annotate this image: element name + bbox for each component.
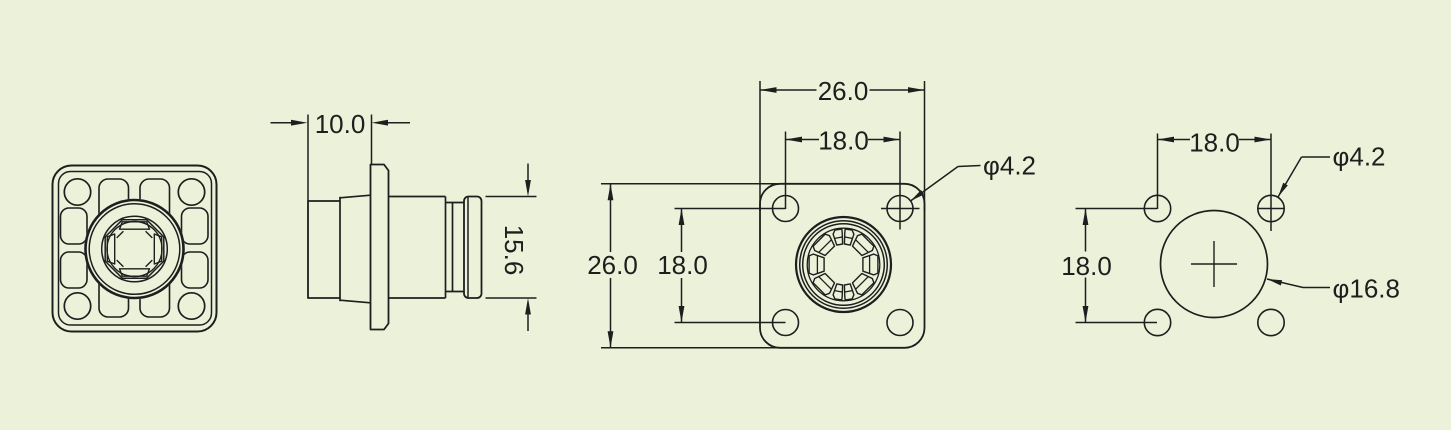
svg-text:26.0: 26.0 bbox=[587, 250, 638, 280]
svg-text:15.6: 15.6 bbox=[499, 225, 529, 276]
svg-text:26.0: 26.0 bbox=[818, 76, 869, 106]
svg-text:18.0: 18.0 bbox=[1189, 128, 1240, 158]
svg-text:φ4.2: φ4.2 bbox=[983, 151, 1036, 181]
svg-text:18.0: 18.0 bbox=[1061, 251, 1112, 281]
svg-text:10.0: 10.0 bbox=[315, 109, 366, 139]
svg-text:18.0: 18.0 bbox=[818, 126, 869, 156]
svg-text:18.0: 18.0 bbox=[657, 250, 708, 280]
svg-text:φ4.2: φ4.2 bbox=[1333, 142, 1386, 172]
svg-text:φ16.8: φ16.8 bbox=[1333, 274, 1400, 304]
